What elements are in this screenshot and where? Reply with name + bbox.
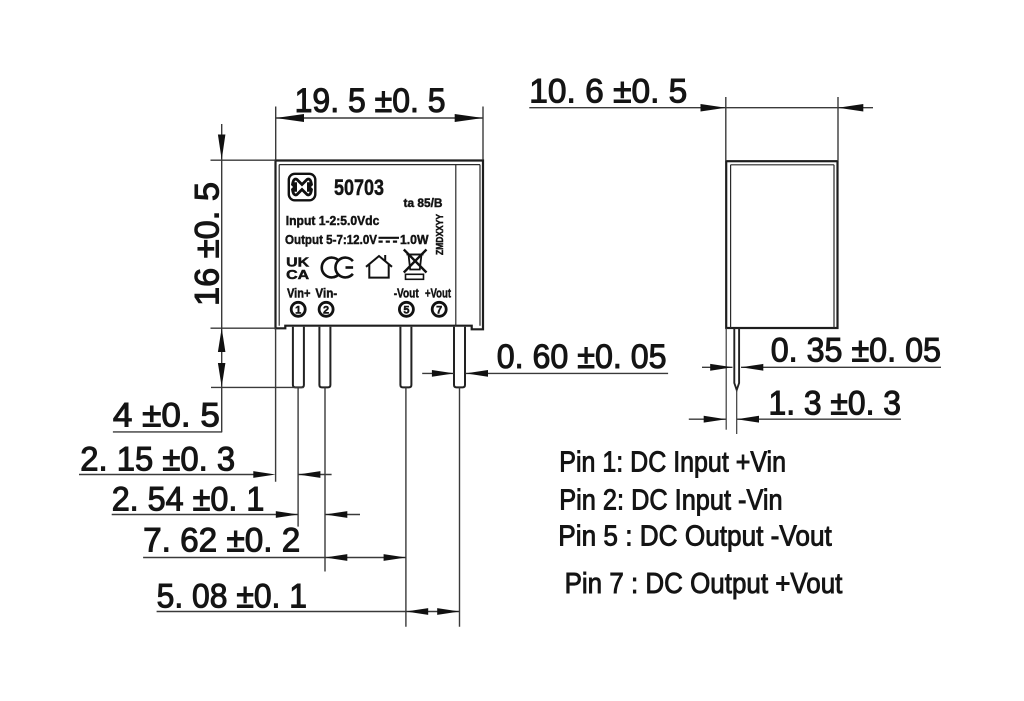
dimension 0.35 lines — [702, 366, 941, 368]
extension lines below module — [276, 328, 460, 627]
dimension 1.3 lines — [689, 418, 901, 420]
arrow 19.5 left — [276, 114, 304, 122]
pin number circle 1 — [291, 302, 305, 316]
svg-text:Output 5-7:12.0V: Output 5-7:12.0V — [285, 233, 378, 247]
dimension 7.62 line — [143, 557, 406, 559]
svg-text:19. 5 ±0. 5: 19. 5 ±0. 5 — [295, 82, 446, 120]
svg-text:5: 5 — [403, 304, 409, 316]
dimension 19.5 line — [276, 117, 483, 119]
svg-text:Vin+: Vin+ — [287, 287, 311, 301]
WEEE bin icon — [404, 250, 427, 280]
arrow 2.54 left-pointing at pin2 line — [325, 511, 347, 518]
svg-text:2. 15 ±0. 3: 2. 15 ±0. 3 — [80, 441, 235, 479]
pin 5 shaft front — [400, 327, 411, 388]
svg-text:50703: 50703 — [334, 175, 384, 200]
arrow 16 top (down) — [218, 135, 226, 160]
svg-text:Pin 7 : DC Output +Vout: Pin 7 : DC Output +Vout — [565, 568, 843, 600]
svg-text:4 ±0. 5: 4 ±0. 5 — [113, 397, 220, 435]
pin number circle 2 — [319, 302, 333, 316]
arrow 2.15 left-pointing at pin1 line — [298, 471, 320, 478]
arrow 2.54 right-pointing at pin1 line — [276, 511, 298, 518]
arrow 7.62 left-pointing at pin2 line — [325, 554, 347, 561]
logo mornsun — [289, 174, 316, 201]
arrow 0.60 right-pointing at pin7 left edge — [432, 370, 454, 377]
side body left edge extension — [725, 328, 727, 430]
front view inner edge lines — [279, 165, 480, 326]
arrow 7.62 right-pointing at pin5 line — [384, 554, 406, 561]
arrow 16/4 middle (up) — [218, 328, 226, 352]
svg-text:Pin 2: DC Input -Vin: Pin 2: DC Input -Vin — [559, 485, 782, 517]
svg-text:1. 3 ±0. 3: 1. 3 ±0. 3 — [769, 385, 902, 423]
UKCA mark — [286, 255, 310, 283]
svg-text:16 ±0. 5: 16 ±0. 5 — [189, 182, 227, 306]
svg-text:0. 35 ±0. 05: 0. 35 ±0. 05 — [771, 332, 941, 370]
svg-text:+Vout: +Vout — [425, 287, 452, 301]
pin 7 shaft front — [454, 327, 465, 388]
side view body — [726, 161, 837, 328]
svg-text:ZMDXXYY: ZMDXXYY — [435, 214, 446, 255]
svg-text:7. 62 ±0. 2: 7. 62 ±0. 2 — [143, 522, 300, 560]
dimension 19.5 extension lines — [276, 107, 483, 160]
dimension 0.60 lines — [422, 372, 668, 374]
svg-text:Vin-: Vin- — [315, 287, 337, 301]
side pin centerline — [736, 390, 738, 434]
front view module body U1 — [276, 161, 484, 330]
arrow 5.08 right-pointing at pin7 line — [437, 608, 459, 615]
svg-text:ta 85/B: ta 85/B — [404, 196, 443, 210]
DC symbol — [379, 238, 400, 242]
CE mark — [322, 258, 353, 278]
svg-text:10. 6 ±0. 5: 10. 6 ±0. 5 — [529, 73, 687, 111]
pin number circle 5 — [399, 302, 413, 316]
arrow 1.3 right-pointing at body edge — [704, 416, 726, 423]
arrow 4 bottom (down) — [218, 363, 226, 387]
arrow 0.35 left-pointing at pin right — [741, 364, 763, 371]
arrow 10.6 left — [701, 104, 726, 112]
arrow 5.08 left-pointing at pin5 line — [406, 608, 428, 615]
svg-text:Pin 5 : DC Output -Vout: Pin 5 : DC Output -Vout — [558, 521, 832, 553]
svg-text:Input 1-2:5.0Vdc: Input 1-2:5.0Vdc — [286, 214, 380, 228]
svg-text:Pin 1: DC Input +Vin: Pin 1: DC Input +Vin — [559, 447, 786, 479]
pin 2 shaft front — [319, 327, 330, 388]
svg-text:-Vout: -Vout — [394, 287, 420, 301]
svg-text:1: 1 — [295, 304, 301, 316]
dimension 5.08 line — [157, 611, 460, 613]
house icon (safety isolation) — [366, 255, 392, 278]
arrow 10.6 right — [838, 104, 863, 112]
arrow 1.3 left-pointing at pin centerline — [737, 416, 759, 423]
arrow 19.5 right — [455, 114, 483, 122]
svg-text:5. 08 ±0. 1: 5. 08 ±0. 1 — [157, 578, 307, 616]
svg-text:CA: CA — [286, 267, 310, 282]
left extension lines for 16 dim — [211, 124, 304, 432]
svg-text:2. 54 ±0. 1: 2. 54 ±0. 1 — [112, 481, 265, 519]
dimension 2.54 line — [112, 514, 360, 516]
pin 1 shaft front — [293, 327, 304, 388]
svg-text:0. 60 ±0. 05: 0. 60 ±0. 05 — [497, 338, 667, 376]
svg-text:2: 2 — [323, 304, 329, 316]
side view pin — [734, 328, 739, 390]
arrow 0.35 right-pointing at pin left — [710, 364, 732, 371]
dimension 10.6 line — [529, 97, 873, 160]
svg-text:7: 7 — [436, 304, 442, 316]
svg-text:1.0W: 1.0W — [400, 233, 429, 247]
dimension 2.15 line — [79, 474, 332, 476]
arrow 0.60 left-pointing at pin7 right edge — [466, 370, 488, 377]
side view inner lines — [731, 165, 834, 328]
dimension text 4 and leader — [113, 431, 222, 433]
arrow 2.15 right-pointing at module edge — [253, 471, 275, 478]
pin number circle 7 — [432, 302, 446, 316]
